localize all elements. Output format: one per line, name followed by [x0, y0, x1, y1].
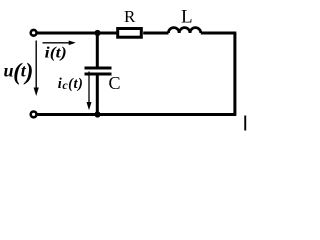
wire inductor to corner	[201, 32, 237, 35]
arrow i(t)	[43, 41, 76, 46]
inductor L	[168, 28, 200, 33]
svg-text:L: L	[181, 6, 193, 27]
terminal bottom-left	[31, 112, 37, 118]
cursor mark bottom-right	[244, 116, 246, 131]
svg-text:R: R	[124, 7, 136, 26]
wire right side	[233, 33, 236, 115]
svg-text:i(t): i(t)	[45, 45, 67, 62]
voltage arrow u(t)	[34, 41, 39, 97]
wire resistor to inductor	[143, 32, 168, 35]
node junction top	[94, 30, 100, 36]
svg-text:u(t): u(t)	[4, 60, 33, 86]
capacitor C	[85, 33, 112, 116]
resistor R	[118, 29, 142, 38]
wire top rail	[37, 32, 118, 35]
svg-text:ic(t): ic(t)	[58, 76, 84, 92]
terminal top-left	[31, 30, 37, 36]
current arrow ic(t)	[87, 72, 92, 111]
node junction bottom	[94, 111, 100, 117]
svg-text:C: C	[109, 73, 121, 93]
wire bottom rail	[37, 113, 237, 116]
